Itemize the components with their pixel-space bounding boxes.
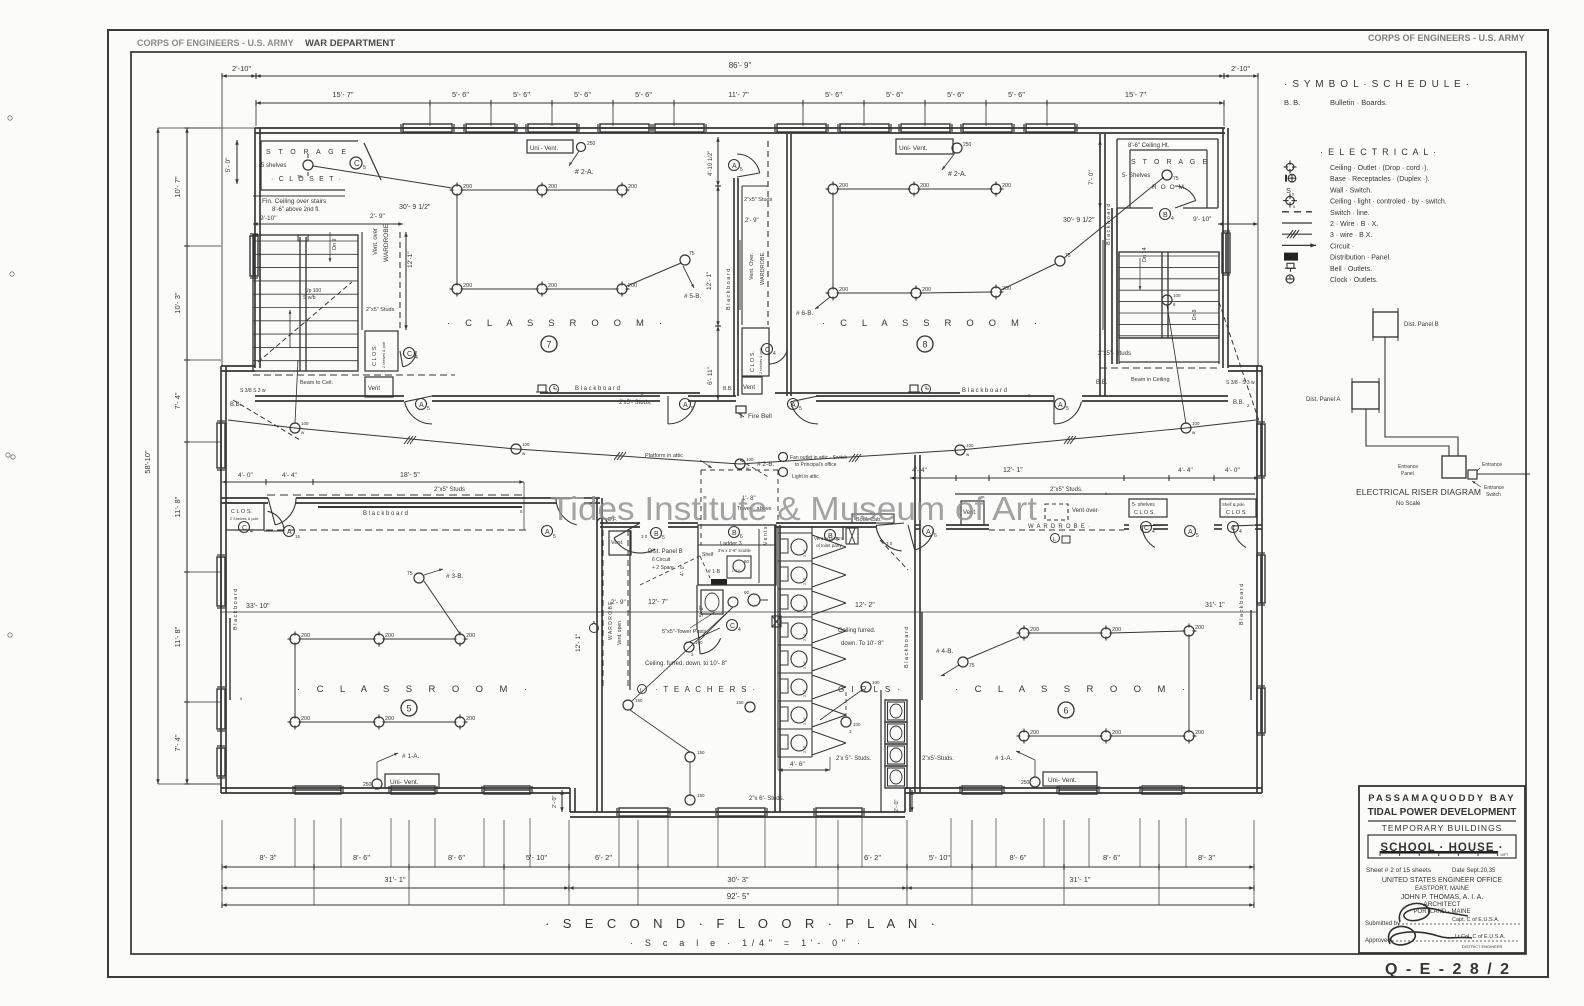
riser entrance panel box	[1442, 456, 1466, 478]
svg-text:4'- 0": 4'- 0"	[238, 472, 253, 479]
corridor east wall class8 west	[786, 134, 788, 396]
svg-text:+ 2 Spare: + 2 Spare	[652, 565, 674, 571]
svg-text:5: 5	[553, 534, 556, 540]
svg-text:L.T.S.: L.T.S.	[732, 569, 742, 573]
svg-text:2 shelves & pole: 2 shelves & pole	[382, 342, 386, 368]
bottom wall center section	[570, 811, 905, 813]
svg-text:A: A	[545, 529, 550, 536]
svg-text:15'- 7": 15'- 7"	[332, 90, 354, 99]
svg-text:CORPS OF ENGINEERS - U.S. ARMY: CORPS OF ENGINEERS - U.S. ARMY	[1368, 33, 1525, 43]
svg-text:Date Sept.20,35: Date Sept.20,35	[1452, 868, 1496, 874]
left dim chain segments	[186, 128, 188, 784]
blackboard class8 east	[1102, 240, 1104, 330]
svg-text:B l a c k b o a r d: B l a c k b o a r d	[363, 511, 408, 517]
legend 3	[1282, 233, 1312, 235]
svg-text:2'-10": 2'-10"	[232, 64, 251, 73]
svg-text:Dist. Panel B: Dist. Panel B	[648, 549, 683, 555]
pole closet class6	[1220, 499, 1256, 517]
svg-text:31'- 1": 31'- 1"	[1069, 875, 1091, 884]
legend Distribution	[1284, 253, 1298, 261]
svg-text:# 1-B: # 1-B	[708, 569, 721, 575]
class8 ceiling light 75	[1055, 256, 1065, 266]
corridor circuit wire right	[740, 450, 960, 464]
svg-text:60: 60	[744, 590, 750, 595]
svg-text:Entrance: Entrance	[1398, 464, 1418, 470]
svg-text:· S c a l e · 1/4" = 1'- 0: · S c a l e · 1/4" = 1'- 0" ·	[630, 938, 860, 948]
svg-text:A: A	[419, 402, 424, 409]
svg-text:Dn 9: Dn 9	[1192, 309, 1198, 320]
svg-text:Base · Receptacles · (Duplex ·: Base · Receptacles · (Duplex ·).	[1330, 176, 1430, 183]
svg-text:5'- 6": 5'- 6"	[947, 90, 964, 99]
svg-text:Entrance: Entrance	[1484, 485, 1504, 491]
svg-text:2'- 0": 2'- 0"	[894, 799, 900, 812]
corridor circuit wire left	[228, 420, 295, 428]
label 5-B	[683, 266, 694, 288]
svg-text:5: 5	[363, 165, 366, 171]
class7 ceiling light 75	[680, 255, 690, 265]
blackboard class5 west	[229, 618, 231, 700]
svg-text:Switch: Switch	[1486, 492, 1501, 498]
svg-text:B: B	[1163, 212, 1168, 219]
svg-text:C: C	[354, 159, 360, 168]
class8 outlets row1	[828, 184, 838, 194]
svg-text:200: 200	[839, 287, 848, 293]
riser entrance switch box	[1468, 470, 1477, 479]
class8 vertical wire	[832, 194, 834, 288]
svg-text:4: 4	[773, 351, 776, 357]
svg-text:B l a c k b o a r d: B l a c k b o a r d	[1106, 204, 1112, 245]
svg-text:12'- 7": 12'- 7"	[648, 599, 668, 606]
svg-text:TEMPORARY BUILDINGS: TEMPORARY BUILDINGS	[1382, 823, 1503, 833]
school house box	[1368, 835, 1516, 858]
svg-text:5: 5	[799, 406, 802, 412]
svg-text:PASSAMAQUODDY BAY: PASSAMAQUODDY BAY	[1368, 793, 1516, 804]
svg-text:Light in attic: Light in attic	[792, 474, 819, 480]
svg-text:B l a c k b o a r d: B l a c k b o a r d	[962, 388, 1007, 394]
svg-text:100: 100	[853, 722, 861, 727]
svg-text:Capt. C of E.U.S.A.: Capt. C of E.U.S.A.	[1452, 917, 1500, 923]
svg-text:8'- 3": 8'- 3"	[259, 853, 276, 862]
svg-text:5: 5	[1066, 406, 1069, 412]
wire to right storage	[1064, 177, 1164, 258]
svg-text:11'- 8": 11'- 8"	[173, 496, 182, 517]
book cab	[852, 514, 894, 523]
vent over wardrobe center	[741, 186, 743, 325]
class6 uni-vent bottom	[1043, 772, 1097, 786]
left dim chain overall 58-10	[157, 128, 159, 784]
svg-text:2'-6": 2'-6"	[802, 604, 807, 613]
svg-text:8'- 6": 8'- 6"	[353, 853, 370, 862]
left stair exit arrow	[289, 310, 291, 348]
svg-text:ELECTRICAL RISER DIAGRAM: ELECTRICAL RISER DIAGRAM	[1356, 487, 1481, 497]
girls sinks	[885, 700, 907, 722]
svg-text:· C L A S S R O O M ·: · C L A S S R O O M ·	[822, 318, 1037, 329]
svg-text:4: 4	[1171, 216, 1174, 222]
studs dashed line class5	[267, 494, 524, 496]
svg-text:6: 6	[1063, 706, 1068, 716]
svg-text:2 Shelves & pole: 2 Shelves & pole	[230, 517, 259, 521]
uni-vent class7 top	[527, 140, 573, 153]
svg-text:Vent: Vent	[743, 385, 755, 391]
svg-text:86'- 9": 86'- 9"	[729, 61, 752, 70]
svg-text:A: A	[1188, 529, 1193, 536]
left small dim 5-0	[236, 140, 238, 184]
svg-text:5'- 10": 5'- 10"	[929, 853, 951, 862]
svg-text:5: 5	[427, 406, 430, 412]
svg-text:5'- 10": 5'- 10"	[526, 853, 548, 862]
svg-text:250: 250	[963, 142, 972, 148]
legend Ceiling	[1286, 163, 1294, 171]
class5 east wall	[596, 498, 598, 812]
svg-text:B: B	[654, 531, 659, 538]
svg-text:200: 200	[548, 283, 557, 289]
svg-text:30'- 3": 30'- 3"	[727, 875, 749, 884]
svg-text:5'- 6": 5'- 6"	[1008, 90, 1025, 99]
clos lower left	[226, 503, 264, 530]
svg-text:· S Y M B O L · S C H E D U: · S Y M B O L · S C H E D U L E ·	[1284, 79, 1469, 90]
bell clock class7	[538, 385, 546, 392]
svg-text:18'- 5": 18'- 5"	[400, 472, 420, 479]
svg-text:Vent·over·: Vent·over·	[1072, 508, 1100, 514]
svg-text:Circuit ·: Circuit ·	[1330, 243, 1354, 250]
svg-text:200: 200	[463, 283, 472, 289]
svg-text:Submitted by: Submitted by	[1365, 921, 1400, 927]
vent center	[742, 377, 762, 394]
svg-text:Wall · Switch.: Wall · Switch.	[1330, 187, 1372, 194]
bottom step west	[569, 788, 571, 812]
svg-text:B l a c k b o a r d: B l a c k b o a r d	[233, 589, 239, 630]
svg-text:200: 200	[922, 287, 931, 293]
svg-text:# 2-A.: # 2-A.	[948, 171, 967, 178]
class8 east wall	[1099, 134, 1101, 396]
storage closet left	[261, 140, 358, 142]
svg-text:150: 150	[736, 700, 744, 705]
svg-text:Vent. over: Vent. over	[373, 228, 379, 255]
svg-text:150: 150	[697, 750, 705, 755]
svg-text:100: 100	[1192, 421, 1200, 426]
svg-text:200: 200	[1195, 730, 1204, 736]
svg-text:Bulletin · Boards.: Bulletin · Boards.	[1330, 98, 1387, 107]
svg-text:WAR DEPARTMENT: WAR DEPARTMENT	[305, 38, 395, 49]
svg-text:S 3/8 S 3 w: S 3/8 S 3 w	[240, 388, 266, 394]
inner border frame	[131, 52, 1526, 954]
class6 ceiling light 4-B	[958, 657, 968, 667]
svg-text:B.B.: B.B.	[230, 402, 242, 408]
blackboard class6 west	[921, 612, 923, 700]
svg-text:150: 150	[635, 698, 643, 703]
svg-text:100: 100	[872, 680, 880, 685]
class7 outlets row1	[452, 185, 462, 195]
girls outlets	[861, 682, 871, 692]
svg-text:4'- 4": 4'- 4"	[912, 467, 927, 474]
windows top wall	[403, 124, 452, 132]
svg-text:2"x5" Studs: 2"x5" Studs	[434, 487, 465, 493]
svg-text:3 0: 3 0	[641, 534, 648, 539]
svg-text:Vent: Vent	[368, 386, 380, 392]
stair right outlet	[1162, 295, 1172, 305]
svg-text:Ceiling · light · controled ·: Ceiling · light · controled · by · switc…	[1330, 199, 1447, 206]
wire storage to corridor	[313, 166, 452, 188]
stair right wires	[1167, 305, 1186, 424]
teachers fixtures	[701, 590, 723, 614]
svg-text:Ceiling · Outlet · (Drop · co: Ceiling · Outlet · (Drop · cord ·).	[1330, 165, 1428, 172]
svg-text:100: 100	[966, 443, 974, 448]
class5 outlets	[290, 634, 300, 644]
svg-text:4: 4	[250, 529, 253, 535]
svg-text:Tides Institute & Museum of Ar: Tides Institute & Museum of Art	[550, 490, 1037, 527]
svg-text:12'-1": 12'-1"	[407, 251, 414, 268]
svg-text:250: 250	[587, 141, 596, 147]
girls west wall	[774, 525, 776, 812]
svg-text:C L O S.: C L O S.	[1134, 510, 1155, 516]
svg-text:58'-10": 58'-10"	[143, 450, 152, 474]
drinking fountain	[597, 518, 607, 523]
girls stall bottom dim	[778, 769, 830, 771]
blackboard south labels	[540, 392, 700, 394]
legend Switch	[1282, 211, 1312, 213]
svg-text:3'w x 2'-6" Scuttle: 3'w x 2'-6" Scuttle	[718, 548, 752, 553]
girls lavatory wall	[880, 690, 882, 812]
vents strip	[758, 529, 760, 583]
svg-text:Fan outlet in attic · Switch: Fan outlet in attic · Switch	[790, 455, 847, 461]
svg-text:# 1-A.: # 1-A.	[402, 753, 420, 760]
svg-text:B l a c k b o a r d: B l a c k b o a r d	[726, 269, 732, 310]
svg-text:200: 200	[1112, 730, 1121, 736]
svg-text:200: 200	[301, 633, 310, 639]
corridor top door A5	[737, 154, 760, 173]
svg-text:A: A	[683, 402, 688, 409]
svg-text:C: C	[242, 525, 247, 532]
svg-text:100: 100	[746, 457, 754, 462]
svg-text:4: 4	[738, 627, 741, 633]
svg-text:Clock · Outlets.: Clock · Outlets.	[1330, 277, 1378, 284]
dashed wardrobe line class5	[266, 529, 527, 531]
svg-text:150: 150	[697, 793, 705, 798]
furred dashed lines	[640, 556, 700, 585]
svg-text:200: 200	[839, 183, 848, 189]
corridor dim chain	[717, 137, 719, 186]
svg-text:Vent.: Vent.	[611, 540, 624, 546]
scale bar	[1380, 851, 1498, 854]
closet center	[742, 328, 769, 376]
blackboard class5 top	[318, 506, 522, 508]
class5 ceiling light 3-B	[414, 573, 424, 583]
svg-text:2'-6": 2'-6"	[802, 576, 807, 585]
svg-text:2'-6": 2'-6"	[802, 688, 807, 697]
svg-text:Ceiling. furred. down. to 10'-: Ceiling. furred. down. to 10'- 8"	[645, 661, 727, 667]
legend 2	[1282, 222, 1312, 224]
bottom dim row overall 92-5	[222, 904, 1254, 906]
svg-text:2'- 9": 2'- 9"	[745, 218, 759, 224]
svg-text:EASTPORT, MAINE: EASTPORT, MAINE	[1415, 886, 1469, 892]
svg-text:2'- 9": 2'- 9"	[370, 213, 385, 220]
svg-text:· C L A S S R O O M ·: · C L A S S R O O M ·	[955, 684, 1185, 695]
svg-text:5"x5"-Tower Posts: 5"x5"-Tower Posts	[662, 629, 707, 635]
legend Ceiling	[1286, 196, 1294, 204]
svg-text:2'-6": 2'-6"	[802, 548, 807, 557]
svg-text:# 1-A.: # 1-A.	[995, 755, 1013, 762]
svg-text:Sheet # 2 of 15 sheets: Sheet # 2 of 15 sheets	[1366, 867, 1432, 874]
svg-text:# 4-B.: # 4-B.	[936, 648, 954, 655]
svg-text:200: 200	[920, 183, 929, 189]
svg-text:2'- 0": 2'- 0"	[552, 795, 558, 808]
svg-text:Entrance: Entrance	[1482, 462, 1502, 468]
bottom dim row windows	[222, 866, 1254, 868]
svg-text:C L O S.: C L O S.	[1226, 510, 1247, 516]
platform dashed outline	[700, 470, 702, 545]
svg-text:Fin. Ceiling over stairs: Fin. Ceiling over stairs	[262, 198, 327, 205]
svg-text:6: 6	[740, 534, 743, 540]
girls wall column	[842, 526, 844, 540]
svg-text:A: A	[732, 163, 737, 170]
svg-text:W A R D R O B E ·: W A R D R O B E ·	[1028, 524, 1090, 530]
riser wires	[1385, 337, 1458, 456]
stair right window	[1222, 233, 1230, 273]
class7 outlets row2	[452, 284, 462, 294]
svg-text:8'-6" above 2nd fl.: 8'-6" above 2nd fl.	[272, 207, 320, 213]
svg-text:down. To 10'- 8": down. To 10'- 8"	[841, 641, 884, 647]
svg-text:B. B.: B. B.	[1284, 98, 1300, 107]
vent over wardrobe class6	[1045, 504, 1068, 520]
svg-text:C: C	[730, 623, 735, 630]
svg-text:V e n t s: V e n t s	[763, 526, 769, 545]
svg-text:C: C	[765, 347, 770, 354]
windows bottom walls	[295, 786, 341, 794]
svg-text:200: 200	[466, 633, 475, 639]
svg-text:B l a c k b o a r d: B l a c k b o a r d	[904, 627, 910, 668]
tower structure	[698, 525, 776, 585]
svg-text:8: 8	[922, 340, 927, 350]
class6 west wall	[914, 455, 916, 793]
svg-text:2"x5" Studs.: 2"x5" Studs.	[1050, 487, 1083, 493]
svg-text:8'-6" Ceiling Ht.: 8'-6" Ceiling Ht.	[1128, 143, 1170, 149]
svg-text:2"x5'-Studs.: 2"x5'-Studs.	[922, 756, 954, 762]
svg-text:6'- 2": 6'- 2"	[864, 853, 881, 862]
door B5 girls	[876, 525, 902, 551]
upper west exterior wall	[254, 128, 256, 368]
legend Circuit	[1282, 244, 1316, 246]
svg-text:5: 5	[406, 704, 411, 714]
svg-text:2"x5"- Studs: 2"x5"- Studs	[1098, 351, 1131, 357]
svg-text:7'- 4": 7'- 4"	[173, 392, 182, 409]
svg-text:Dist. Panel A: Dist. Panel A	[1306, 397, 1340, 403]
riser dist panel B box	[1373, 312, 1398, 337]
svg-text:6 Circuit: 6 Circuit	[652, 557, 671, 563]
teachers outlet 100-2	[684, 642, 694, 652]
svg-text:7'- 4": 7'- 4"	[173, 734, 182, 751]
svg-text:11'- 8": 11'- 8"	[173, 626, 182, 647]
svg-text:B l a c k b o a r d: B l a c k b o a r d	[1239, 584, 1245, 625]
svg-text:250: 250	[363, 782, 372, 788]
svg-text:Q - E - 2 8 / 2: Q - E - 2 8 / 2	[1385, 961, 1511, 978]
stair right	[1119, 252, 1219, 338]
svg-text:B.B.: B.B.	[723, 386, 732, 392]
svg-text:5'- 6": 5'- 6"	[825, 90, 842, 99]
fin ceiling note left	[253, 195, 345, 197]
svg-text:Ladder 3: Ladder 3	[720, 541, 742, 547]
svg-text:S: S	[1286, 186, 1291, 195]
svg-text:7'- 0": 7'- 0"	[1088, 170, 1095, 185]
svg-text:· C L O S E T ·: · C L O S E T ·	[271, 176, 341, 183]
svg-text:Approved: Approved	[1365, 938, 1391, 944]
door arcs upper classrooms	[405, 402, 432, 424]
svg-text:2'x5'- Studs.: 2'x5'- Studs.	[619, 400, 652, 406]
svg-text:75: 75	[407, 571, 413, 577]
svg-text:DISTRICT ENGINEER: DISTRICT ENGINEER	[1462, 944, 1502, 949]
svg-text:5'- 0": 5'- 0"	[225, 157, 232, 172]
svg-text:12'- 2": 12'- 2"	[855, 602, 875, 609]
wardrobe strip left	[361, 232, 363, 330]
closet left mid	[365, 331, 398, 371]
svg-text:12'- 1": 12'- 1"	[575, 633, 582, 652]
svg-text:Beam to Ceil.: Beam to Ceil.	[300, 380, 333, 386]
svg-text:75: 75	[1173, 176, 1179, 182]
svg-text:33'- 10": 33'- 10"	[246, 603, 270, 610]
svg-text:Bell · Outlets.: Bell · Outlets.	[1330, 266, 1372, 273]
svg-text:# 2-A.: # 2-A.	[575, 169, 594, 176]
signature scribbles	[1399, 903, 1468, 922]
teachers outlets 150	[623, 700, 633, 710]
svg-text:Shelf & pole: Shelf & pole	[1222, 502, 1245, 507]
svg-text:75: 75	[969, 663, 975, 669]
uni-vent class8 top	[896, 139, 953, 154]
top exterior wall	[255, 127, 1225, 129]
svg-text:A: A	[1058, 402, 1063, 409]
svg-text:UNITED STATES ENGINEER OFFICE: UNITED STATES ENGINEER OFFICE	[1382, 877, 1503, 884]
door B5 teachers	[614, 538, 655, 553]
svg-text:200: 200	[628, 184, 637, 190]
vent box class6	[961, 501, 984, 525]
svg-text:30'- 9 1/2": 30'- 9 1/2"	[1063, 217, 1095, 224]
svg-text:75: 75	[689, 251, 695, 257]
class5 uni-vent bottom	[385, 774, 439, 788]
svg-text:2"x5" Studs: 2"x5" Studs	[366, 307, 395, 313]
svg-text:2'-10": 2'-10"	[1231, 64, 1250, 73]
storage room right	[1117, 138, 1218, 140]
svg-text:Uni- Vent.: Uni- Vent.	[390, 779, 419, 786]
title block frame	[1359, 786, 1525, 953]
svg-text:5- shelves: 5- shelves	[1132, 502, 1155, 508]
vent left mid	[365, 377, 393, 397]
svg-text:4: 4	[1152, 529, 1155, 535]
svg-text:5'- 6": 5'- 6"	[635, 90, 652, 99]
class6 outlets	[1019, 628, 1029, 638]
legend Base	[1288, 174, 1296, 182]
east step wall	[1228, 365, 1262, 367]
svg-text:5: 5	[691, 406, 694, 412]
svg-text:4: 4	[1239, 529, 1242, 535]
bottom wall class room 5	[221, 787, 570, 789]
svg-text:200: 200	[1030, 627, 1039, 633]
svg-text:TIDAL POWER DEVELOPMENT: TIDAL POWER DEVELOPMENT	[1368, 807, 1517, 818]
bottom step east	[904, 788, 906, 812]
svg-text:5'- 6": 5'- 6"	[886, 90, 903, 99]
svg-text:2'-6": 2'-6"	[802, 716, 807, 725]
north wall class room 5	[221, 497, 268, 499]
north wall class room 6	[915, 524, 920, 526]
svg-text:7: 7	[546, 340, 551, 350]
svg-text:5'- 8": 5'- 8"	[699, 605, 705, 617]
svg-text:# 5-B.: # 5-B.	[684, 293, 702, 300]
svg-text:100: 100	[301, 421, 309, 426]
svg-text:10FT: 10FT	[1500, 853, 1509, 857]
svg-text:250: 250	[1021, 780, 1030, 786]
svg-text:8'- 6": 8'- 6"	[448, 853, 465, 862]
svg-text:Vent. open.: Vent. open.	[617, 620, 623, 645]
svg-text:5 shelves: 5 shelves	[261, 163, 286, 169]
svg-text:11'- 7": 11'- 7"	[728, 90, 749, 99]
svg-text:# 6-B.: # 6-B.	[796, 310, 814, 317]
